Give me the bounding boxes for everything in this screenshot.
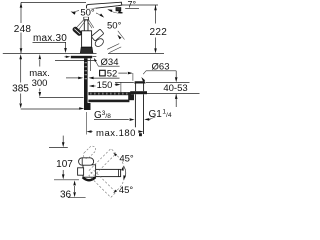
svg-text:150: 150 bbox=[97, 80, 113, 91]
svg-text:36: 36 bbox=[60, 190, 72, 200]
svg-text:248: 248 bbox=[14, 24, 32, 35]
svg-text:385: 385 bbox=[12, 84, 29, 95]
svg-text:107: 107 bbox=[56, 159, 73, 170]
svg-text:52: 52 bbox=[107, 69, 118, 80]
svg-text:50°: 50° bbox=[80, 7, 95, 18]
svg-text:max.180: max.180 bbox=[96, 128, 136, 139]
svg-text:40-53: 40-53 bbox=[163, 83, 187, 94]
svg-text:45°: 45° bbox=[119, 154, 134, 165]
svg-text:222: 222 bbox=[150, 27, 168, 38]
svg-text:45°: 45° bbox=[119, 185, 134, 196]
svg-text:300: 300 bbox=[32, 78, 48, 89]
svg-text:50°: 50° bbox=[107, 21, 122, 32]
